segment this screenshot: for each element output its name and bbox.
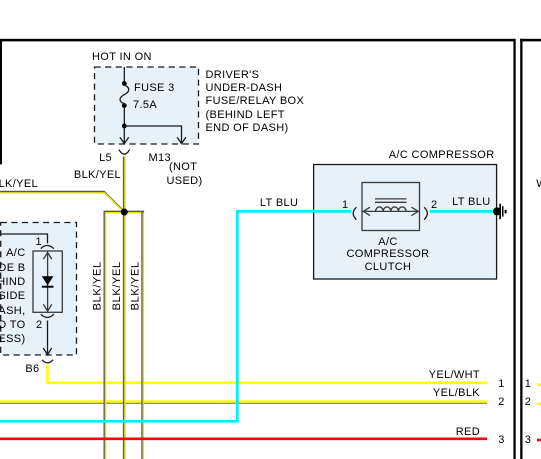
page 1 right border: [513, 39, 515, 459]
page 2 top border: [520, 39, 541, 42]
page 2 wire stub row 3 (red): [537, 439, 541, 442]
page 1 top border: [0, 39, 515, 42]
wire BLK/YEL drop 1: [104, 211, 105, 459]
connector B6: [42, 360, 53, 363]
M13 output arrow: [177, 137, 186, 143]
diode component rectangle: [33, 251, 62, 312]
wire pin2 to box edge with arrow: [43, 321, 51, 355]
clipped box edge at left margin: [0, 40, 2, 164]
wire-continues fade bars: [499, 204, 506, 219]
svg-text:BLK/YEL: BLK/YEL: [111, 261, 123, 310]
A/C diode B box (dashed): [1, 223, 77, 356]
label pin 2 of clutch: [431, 199, 437, 212]
wire fuse to junction: [123, 107, 125, 126]
label HOT IN ON: [92, 51, 152, 64]
label A/C COMPRESSOR CLUTCH: [297, 236, 480, 274]
diode pin 1 wire from left: [0, 234, 48, 243]
wire BLK/YEL drop 3: [142, 211, 143, 459]
A/C compressor box: [314, 165, 497, 280]
connector pin 1 of clutch: [353, 207, 356, 219]
wire RED (row 3): [0, 437, 487, 440]
label pin 2 of diode: [13, 319, 43, 332]
diode symbol (triangle + cathode bar): [42, 276, 54, 287]
wire BLK/YEL drop 2: [124, 212, 125, 459]
label wire number 1 page2: [525, 378, 531, 391]
label YEL/WHT: [380, 369, 480, 382]
label driver's under-dash fuse/relay box location: [206, 69, 305, 135]
svg-text:BLK/YEL: BLK/YEL: [92, 261, 104, 310]
label wire number 2 page2: [525, 396, 531, 409]
label A/C COMPRESSOR title: [355, 149, 495, 162]
L5 output arrow: [120, 126, 129, 144]
connector L5: [119, 150, 130, 155]
label B6: [10, 363, 40, 376]
clutch coil humps: [376, 207, 406, 212]
splice dot at box edge: [493, 207, 501, 215]
compressor clutch coil box: [362, 183, 420, 231]
wire L5 BLK/YEL down to junction: [124, 157, 125, 213]
junction dot inside fuse box: [122, 124, 127, 129]
junction dot (splice): [121, 209, 128, 216]
clutch internal wire with arrows: [363, 207, 418, 215]
coil core lines: [375, 199, 407, 202]
label (NOT: [169, 161, 197, 174]
page 2 wire stub row 1 (yellow): [537, 383, 541, 386]
label FUSE 3: [134, 82, 175, 95]
bus to three BLK/YEL drops: [104, 211, 143, 214]
label wire number 1 page1: [498, 378, 504, 391]
page 2 left border: [520, 39, 522, 459]
fuse F3 bottom terminal dot: [122, 103, 127, 108]
label LT BLU right: [391, 196, 491, 209]
label BLK/YEL on left lead: [0, 178, 38, 191]
label A/C DIODE B location text: [0, 246, 26, 346]
label wire number 3 page2: [525, 434, 531, 447]
wire from box top to fuse: [123, 67, 125, 84]
wire YEL/BLK (row 2): [0, 402, 487, 404]
fuse F3 top terminal dot: [122, 81, 127, 86]
label WHT clipped on page 2: [536, 178, 541, 191]
label LT BLU left: [260, 197, 298, 210]
svg-text:BLK/YEL: BLK/YEL: [129, 261, 141, 310]
fuse/relay box (dashed): [95, 67, 199, 144]
connector pin 1 of diode: [41, 245, 54, 248]
label USED): [167, 175, 203, 188]
connector pin 2 of clutch: [424, 207, 427, 219]
label wire number 3 page1: [498, 434, 504, 447]
branch wire to M13: [124, 126, 181, 139]
LT BLU wire run: [0, 211, 497, 421]
label pin 1 of diode: [12, 236, 42, 249]
label pin 1 of clutch: [319, 199, 349, 212]
label M13: [149, 152, 171, 165]
label L5: [52, 152, 112, 165]
label wire number 2 page1: [498, 396, 504, 409]
BLK/YEL lead from left edge (horizontal + diagonal): [0, 192, 124, 213]
diode internal wire with end arrows: [43, 252, 51, 311]
connector pin 2 of diode: [41, 314, 54, 317]
label RED: [380, 426, 480, 439]
label 7.5A: [133, 99, 157, 112]
page 2 wire stub row 2 (yellow): [537, 402, 541, 405]
YEL wire from B6 down and right (row 1 YEL/WHT): [46, 365, 487, 383]
fuse 3 element (S-curve): [120, 85, 129, 104]
label YEL/BLK: [380, 387, 480, 400]
label BLK/YEL under L5: [41, 169, 121, 182]
